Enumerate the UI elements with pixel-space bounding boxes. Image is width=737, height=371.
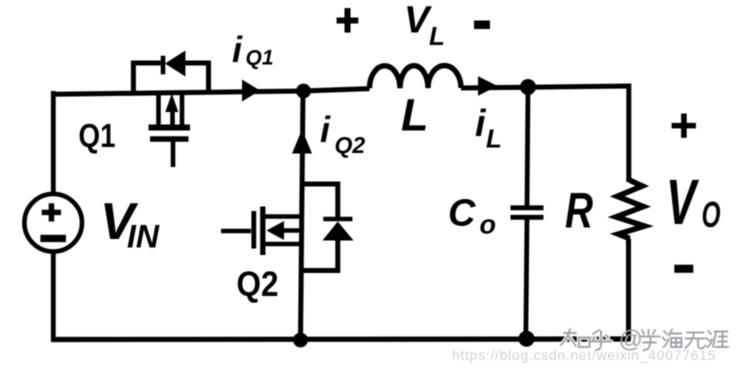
label + VO polarity plus <box>672 114 696 138</box>
node: output node junction dot <box>520 79 536 95</box>
node: switch node junction dot <box>296 84 311 99</box>
svg-text:o: o <box>480 209 497 239</box>
inductor L <box>370 66 462 89</box>
current arrow iQ1 <box>242 80 260 102</box>
watermark URL <box>452 347 716 363</box>
current arrow iQ2 <box>292 130 312 154</box>
wire: resistor bottom to bottom rail <box>626 239 631 341</box>
svg-text:L: L <box>401 90 429 141</box>
watermark at-sign <box>619 326 643 353</box>
transistor Q1 high-side MOSFET <box>149 92 191 167</box>
svg-text:C: C <box>448 192 476 234</box>
label Q1 <box>79 117 116 154</box>
label iL <box>475 103 502 154</box>
svg-text:L: L <box>486 124 502 154</box>
label iQ1 <box>232 29 274 70</box>
wire: left rail top (VIN+ up to top rail) <box>51 91 56 194</box>
transistor Q2 low-side MOSFET <box>221 207 301 256</box>
label VIN <box>100 193 160 255</box>
capacitor Co <box>511 87 544 340</box>
label VO <box>666 166 721 238</box>
node: Co bottom junction dot on bottom rail <box>519 331 535 347</box>
label VL <box>404 0 445 51</box>
svg-text:Q1: Q1 <box>79 117 116 154</box>
label Q2 <box>237 265 279 304</box>
wire: left rail bottom (VIN- down to bottom rail) <box>51 251 56 341</box>
diode: Q1 body diode loop <box>133 51 208 94</box>
voltage source VIN <box>24 194 82 252</box>
svg-text:R: R <box>565 183 593 239</box>
svg-text:i: i <box>232 29 243 70</box>
label L <box>401 90 429 141</box>
svg-text:O: O <box>702 194 721 235</box>
resistor R <box>616 180 645 238</box>
svg-text:L: L <box>429 21 445 51</box>
svg-text:Q2: Q2 <box>237 265 279 304</box>
label + VL polarity plus <box>337 8 359 32</box>
current arrow iL <box>478 76 498 96</box>
diode: Q2 body diode <box>301 184 354 271</box>
svg-text:https://blog.csdn.net/weixin_4: https://blog.csdn.net/weixin_40077615 <box>452 347 716 363</box>
label Co <box>448 192 496 239</box>
wire: bottom rail (ground return) <box>51 336 631 342</box>
wire: switch node down through Q2 to bottom rail <box>301 91 304 340</box>
label - VO polarity minus <box>674 265 693 273</box>
svg-text:Q1: Q1 <box>246 47 274 70</box>
watermark zhihu user text <box>561 329 728 351</box>
wire: top rail from VIN+ to inductor <box>53 89 370 95</box>
svg-text:V: V <box>404 0 432 42</box>
wire: inductor to output corner and right rail down <box>461 86 629 182</box>
svg-text:IN: IN <box>127 219 160 255</box>
node: Q2 source junction dot on bottom rail <box>293 333 308 348</box>
label R <box>565 183 593 239</box>
svg-text:i: i <box>320 109 331 150</box>
svg-text:V: V <box>666 166 700 238</box>
label - VL polarity minus <box>474 21 490 30</box>
label iQ2 <box>320 109 365 158</box>
svg-text:Q2: Q2 <box>335 132 366 158</box>
